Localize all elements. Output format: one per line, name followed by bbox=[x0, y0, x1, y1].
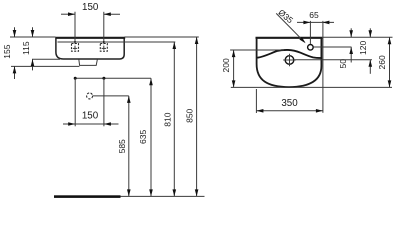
svg-text:635: 635 bbox=[138, 130, 148, 144]
svg-text:115: 115 bbox=[21, 41, 31, 55]
svg-text:155: 155 bbox=[2, 44, 12, 58]
svg-text:65: 65 bbox=[309, 10, 319, 20]
svg-text:150: 150 bbox=[82, 2, 99, 13]
svg-text:810: 810 bbox=[163, 112, 173, 126]
svg-text:350: 350 bbox=[281, 98, 298, 109]
svg-text:850: 850 bbox=[184, 108, 194, 122]
svg-text:585: 585 bbox=[117, 139, 127, 153]
svg-text:200: 200 bbox=[221, 58, 231, 72]
svg-text:150: 150 bbox=[82, 111, 99, 122]
svg-text:120: 120 bbox=[358, 41, 368, 55]
svg-text:260: 260 bbox=[377, 55, 387, 69]
svg-text:50: 50 bbox=[338, 59, 348, 69]
